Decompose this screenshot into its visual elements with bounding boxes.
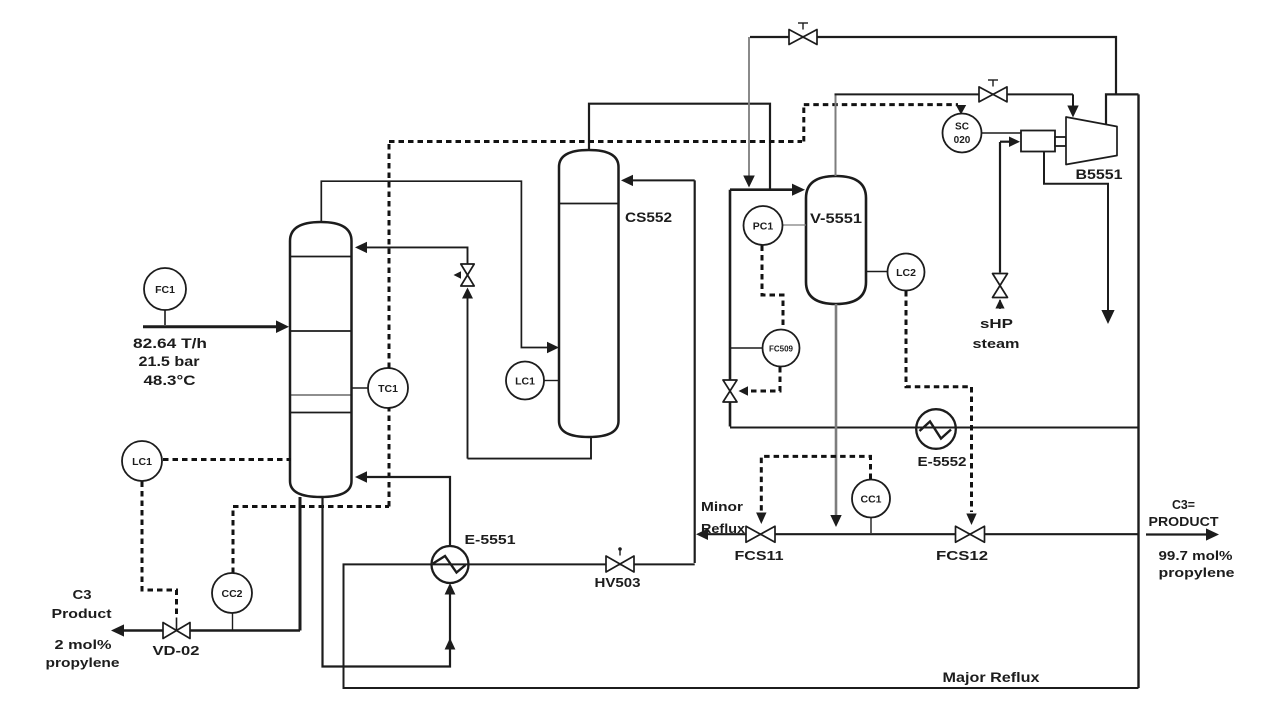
valve on bypass bbox=[789, 23, 817, 45]
wire major reflux bottom run bbox=[344, 667, 1139, 689]
svg-text:VD-02: VD-02 bbox=[153, 643, 200, 658]
column C-5501 tray line 2 bbox=[290, 330, 352, 332]
wire turbine exhaust bbox=[1044, 151, 1115, 324]
wire product header bbox=[696, 529, 1138, 541]
wire discharge downcomer bbox=[1137, 94, 1139, 688]
svg-text:FCS12: FCS12 bbox=[936, 548, 988, 563]
dashed signal LC1 to column bbox=[163, 458, 291, 461]
wire product arrow bbox=[1146, 528, 1219, 540]
wire E-5551 vapor to column bbox=[355, 471, 450, 545]
valve hourglass on recycle leg bbox=[723, 380, 737, 402]
svg-text:2 mol%: 2 mol% bbox=[55, 637, 113, 652]
instrument FC1 bbox=[144, 268, 186, 310]
wire bypass downleg with arrow bbox=[743, 37, 755, 188]
wire V-5551 recycle leg bbox=[729, 190, 732, 427]
wire compressor discharge bridge bbox=[1106, 94, 1139, 124]
wire riser lower with up arrow bbox=[462, 288, 473, 459]
instrument CC2 bbox=[212, 573, 252, 630]
svg-text:Minor: Minor bbox=[701, 499, 743, 514]
dashed signal TC1 vertical bbox=[388, 142, 391, 507]
wire E-5552 condenser line bbox=[730, 427, 1139, 429]
shaft connector bbox=[1055, 137, 1066, 146]
wire V-5551 bottoms downleg bbox=[830, 304, 841, 527]
wire minor reflux riser into CS552 bbox=[621, 175, 695, 563]
svg-text:C3=: C3= bbox=[1172, 497, 1195, 512]
instrument TC1 bbox=[352, 368, 409, 408]
valve sHP steam bbox=[993, 274, 1008, 310]
wire V-5551 inlet header bbox=[730, 184, 805, 196]
dashed signal top run to SC020 bbox=[389, 105, 966, 142]
wire reboiler feed from column bottom bbox=[323, 497, 456, 667]
svg-text:LC2: LC2 bbox=[896, 267, 916, 279]
column C-5501 shell bbox=[290, 222, 352, 497]
compressor B5551 bbox=[1066, 117, 1117, 165]
svg-text:LC1: LC1 bbox=[132, 456, 152, 468]
svg-text:82.64 T/h: 82.64 T/h bbox=[133, 335, 207, 351]
svg-text:propylene: propylene bbox=[1159, 565, 1235, 580]
svg-text:CC2: CC2 bbox=[221, 588, 242, 600]
column C-5501 tray line 3 bbox=[290, 394, 352, 396]
wire reflux into column top bbox=[355, 242, 468, 264]
svg-text:FCS11: FCS11 bbox=[735, 548, 784, 563]
svg-text:sHP: sHP bbox=[980, 316, 1013, 331]
label sHP steam bbox=[973, 316, 1020, 351]
svg-text:propylene: propylene bbox=[46, 655, 120, 670]
exchanger E-5552 bbox=[916, 409, 956, 449]
column C-5501 tray line 1 bbox=[290, 256, 352, 258]
column CS552 tray line bbox=[559, 203, 619, 205]
svg-text:48.3°C: 48.3°C bbox=[144, 372, 196, 388]
instrument LC1 on CS552 bbox=[506, 362, 559, 400]
svg-text:Reflux: Reflux bbox=[701, 521, 746, 536]
svg-text:Product: Product bbox=[52, 606, 113, 621]
svg-text:E-5551: E-5551 bbox=[465, 532, 516, 547]
wire CS552 bottoms loop bbox=[468, 437, 592, 459]
valve FCS11 bbox=[746, 526, 775, 542]
svg-text:B5551: B5551 bbox=[1076, 167, 1124, 182]
svg-text:HV503: HV503 bbox=[595, 575, 641, 590]
dashed signal LC1 to VD-02 bbox=[142, 482, 177, 618]
column C-5501 tray line 4 bbox=[290, 412, 352, 414]
svg-text:21.5 bar: 21.5 bar bbox=[139, 353, 201, 369]
instrument LC1 on column bbox=[122, 441, 162, 481]
wire E-5551 left loop bbox=[344, 564, 695, 666]
svg-text:E-5552: E-5552 bbox=[918, 454, 967, 469]
dashed signal CC1 to FCS11 bbox=[756, 456, 870, 524]
svg-text:C3: C3 bbox=[73, 587, 92, 602]
svg-text:CS552: CS552 bbox=[625, 210, 672, 225]
label C3 product bbox=[46, 587, 120, 670]
label feed conditions bbox=[133, 335, 207, 388]
svg-text:V-5551: V-5551 bbox=[810, 211, 863, 226]
valve VD-02 bbox=[163, 618, 190, 639]
label C3= PRODUCT bbox=[1149, 497, 1235, 580]
svg-text:steam: steam bbox=[973, 336, 1020, 351]
label Minor Reflux bbox=[701, 499, 746, 536]
svg-text:99.7 mol%: 99.7 mol% bbox=[1159, 548, 1234, 563]
valve HV503 bbox=[606, 547, 634, 572]
svg-text:Major Reflux: Major Reflux bbox=[943, 670, 1041, 685]
dashed signal FC509 to valve bbox=[739, 367, 781, 396]
instrument LC2 bbox=[866, 254, 925, 291]
svg-text:FC1: FC1 bbox=[155, 284, 175, 296]
svg-text:020: 020 bbox=[954, 135, 971, 146]
instrument FC509 bbox=[730, 330, 800, 367]
valve on overhead bbox=[979, 80, 1007, 102]
svg-text:SC: SC bbox=[955, 122, 969, 133]
valve on reflux riser bbox=[454, 264, 475, 286]
column CS552 shell bbox=[559, 150, 619, 437]
wire CS552 overhead to V-5551 bbox=[589, 104, 770, 189]
svg-text:PC1: PC1 bbox=[753, 221, 774, 233]
exchanger E-5551 bbox=[432, 546, 469, 583]
svg-text:FC509: FC509 bbox=[769, 345, 794, 354]
valve FCS12 bbox=[956, 526, 985, 542]
vessel V-5551 bbox=[806, 176, 866, 304]
dashed signal LC2 to FCS12 bbox=[906, 291, 977, 525]
turbine gearbox block bbox=[1021, 131, 1055, 152]
svg-text:CC1: CC1 bbox=[860, 494, 881, 506]
instrument PC1 bbox=[744, 206, 807, 245]
wire feed line into column bbox=[143, 310, 289, 333]
wire top bypass line bbox=[750, 37, 1116, 94]
wire sHP steam supply bbox=[1000, 137, 1020, 273]
instrument SC020 bbox=[943, 114, 1022, 153]
dashed signal PC1 to FC509 bbox=[762, 246, 783, 330]
wire V-5551 overhead to compressor bbox=[835, 94, 1079, 176]
svg-text:LC1: LC1 bbox=[515, 376, 535, 388]
svg-text:PRODUCT: PRODUCT bbox=[1149, 514, 1219, 529]
instrument CC1 bbox=[852, 480, 890, 534]
dashed signal CC2 riser bbox=[233, 507, 389, 574]
wire bottoms product line bbox=[111, 497, 300, 637]
wire column overhead to CS552 bbox=[321, 181, 559, 353]
svg-text:TC1: TC1 bbox=[378, 383, 398, 395]
